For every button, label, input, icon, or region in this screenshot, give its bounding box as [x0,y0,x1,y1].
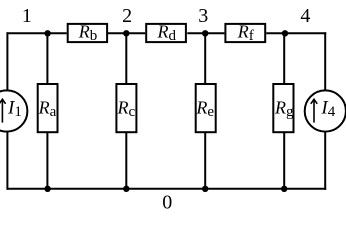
svg-text:4: 4 [300,5,310,27]
svg-text:2: 2 [122,5,132,27]
svg-text:1: 1 [22,5,32,27]
svg-text:3: 3 [198,5,208,27]
svg-text:0: 0 [162,192,172,214]
